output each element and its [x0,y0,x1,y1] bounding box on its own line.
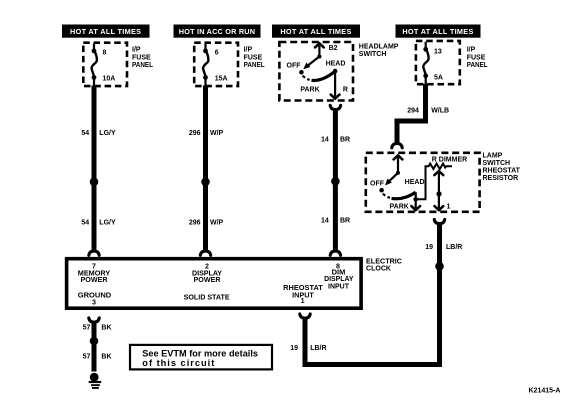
svg-text:HOT IN ACC OR RUN: HOT IN ACC OR RUN [179,27,256,36]
svg-text:296: 296 [189,219,201,226]
svg-text:HEAD: HEAD [405,179,425,186]
svg-text:BK: BK [101,324,111,331]
svg-text:W/P: W/P [210,219,224,226]
svg-text:57: 57 [83,354,91,361]
svg-text:RESISTOR: RESISTOR [483,175,519,182]
svg-text:HEAD: HEAD [326,60,346,67]
svg-text:HOT AT ALL TIMES: HOT AT ALL TIMES [402,27,473,36]
svg-text:R DIMMER: R DIMMER [432,156,467,163]
svg-text:OFF: OFF [287,63,302,70]
svg-text:PARK: PARK [300,86,319,93]
svg-text:296: 296 [189,130,201,137]
svg-text:of this circuit: of this circuit [142,358,214,368]
svg-text:14: 14 [321,137,329,144]
svg-text:INPUT: INPUT [328,283,350,291]
svg-text:5A: 5A [434,75,443,82]
svg-text:19: 19 [290,345,298,352]
svg-text:LB/R: LB/R [446,244,462,251]
svg-text:FUSE: FUSE [132,54,151,61]
svg-text:3: 3 [92,298,96,306]
svg-text:B2: B2 [329,45,338,52]
svg-text:CLOCK: CLOCK [366,266,391,273]
svg-text:14: 14 [321,218,329,225]
svg-text:8: 8 [103,50,107,57]
svg-text:W/LB: W/LB [431,107,449,114]
svg-text:RHEOSTAT: RHEOSTAT [483,168,521,175]
svg-text:LG/Y: LG/Y [99,219,116,226]
svg-text:W/P: W/P [210,130,224,137]
svg-text:SWITCH: SWITCH [483,160,511,167]
svg-text:PANEL: PANEL [244,62,266,69]
svg-text:I/P: I/P [467,47,476,54]
svg-text:LG/Y: LG/Y [99,130,116,137]
svg-text:See EVTM for more details: See EVTM for more details [142,348,258,358]
svg-text:POWER: POWER [194,276,221,284]
svg-text:I/P: I/P [244,47,253,54]
svg-text:HEADLAMP: HEADLAMP [359,43,399,50]
svg-text:1: 1 [301,297,305,305]
svg-text:K21415-A: K21415-A [529,387,561,394]
svg-text:294: 294 [407,107,419,114]
svg-text:PARK: PARK [390,204,409,211]
svg-text:57: 57 [83,324,91,331]
svg-text:SWITCH: SWITCH [359,51,387,58]
svg-text:6: 6 [215,50,219,57]
svg-text:54: 54 [81,130,89,137]
svg-text:13: 13 [434,49,442,56]
svg-text:15A: 15A [215,76,228,83]
svg-text:FUSE: FUSE [244,54,263,61]
svg-text:SOLID STATE: SOLID STATE [184,293,230,301]
svg-text:54: 54 [81,219,89,226]
svg-text:BR: BR [340,218,350,225]
svg-text:HOT AT ALL TIMES: HOT AT ALL TIMES [280,27,351,36]
svg-text:1: 1 [447,204,451,211]
svg-text:LB/R: LB/R [310,345,326,352]
svg-text:PANEL: PANEL [132,62,154,69]
svg-text:LAMP: LAMP [483,153,503,160]
svg-text:BR: BR [340,137,350,144]
svg-text:10A: 10A [103,76,116,83]
svg-text:BK: BK [101,354,111,361]
svg-text:19: 19 [425,244,433,251]
svg-text:HOT AT ALL TIMES: HOT AT ALL TIMES [70,27,141,36]
svg-text:PANEL: PANEL [467,62,489,69]
svg-text:OFF: OFF [370,180,385,187]
svg-text:I/P: I/P [132,47,141,54]
svg-text:R: R [343,86,348,93]
svg-text:POWER: POWER [81,276,108,284]
svg-text:FUSE: FUSE [467,54,486,61]
